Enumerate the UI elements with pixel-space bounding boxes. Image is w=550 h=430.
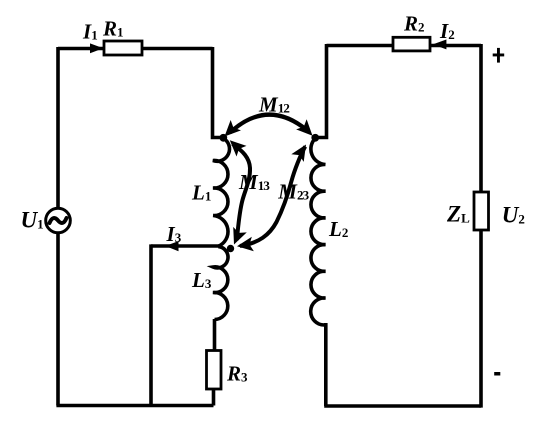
terminal minus [494,372,500,376]
M23 arrowhead top [291,141,312,162]
wire: right vertical bottom (ZL to bottom) [479,230,483,408]
mutual arrow M23 curve [240,147,305,247]
wire: right vertical top (to ZL) [479,44,483,192]
svg-text:R2: R2 [403,11,424,35]
mutual arrow M13 curve [233,144,251,240]
inductor L3 [213,247,228,320]
M23 arrowhead left [236,237,254,254]
resistor R2 [393,37,430,51]
wire: L2 bottom vertical [324,323,328,406]
current arrow I2 [433,40,447,50]
wire: left loop top (source to R1) [58,47,104,51]
M13 arrowhead bottom [227,227,247,247]
mutual arrow M12 arc [230,115,309,133]
wire: right loop top (R2 to right corner) [430,44,481,48]
node dot 3 (L1-L3 junction) [227,245,234,252]
wire: left vertical with U1 source gap [56,47,60,406]
svg-text:R1: R1 [102,16,123,40]
resistor R3 [207,351,222,390]
wire: right loop left vertical down to L2, stub to dot [317,44,327,138]
source U1 circle [46,208,71,233]
svg-text:ZL: ZL [446,201,470,226]
terminal plus [493,54,505,57]
M12 arrowhead left [219,120,241,142]
svg-text:M13: M13 [238,170,270,194]
wire: inner vertical from R1 down to L1, stub to dot [213,47,223,138]
svg-text:L1: L1 [191,180,211,204]
M12 arrowhead right [296,119,318,141]
svg-text:U2: U2 [502,202,525,227]
wire: left loop top (R1 to inner vertical) [142,47,213,51]
wire: I3 horizontal branch [151,244,219,248]
source U1 sine wave [50,218,67,223]
wire: R3 bottom to bottom wire [212,389,216,406]
wire: right loop top (to R2) [327,44,394,48]
wire: right loop bottom [324,404,481,408]
impedance ZL box [474,192,489,230]
node dot 2 (top of L2) [311,134,319,142]
svg-text:M12: M12 [258,93,289,117]
svg-text:M23: M23 [277,180,309,204]
inductor L1 [213,138,230,246]
M13 arrowhead top [225,135,247,157]
svg-text:I2: I2 [439,19,454,43]
wire: L3 bottom to R3 [213,319,217,351]
inductor L2 [311,138,326,325]
svg-text:L2: L2 [328,217,348,241]
svg-text:R3: R3 [226,362,248,386]
node dot 1 (top of L1) [219,134,227,142]
wire: left loop bottom [56,404,213,408]
resistor R1 [104,41,142,55]
svg-text:U1: U1 [21,208,44,233]
svg-text:L3: L3 [191,268,212,292]
svg-text:I1: I1 [82,19,97,43]
svg-text:I3: I3 [166,222,182,246]
current arrow I1 [90,43,103,53]
wire: I3 vertical branch [149,244,153,405]
current arrow I3 [165,241,178,251]
